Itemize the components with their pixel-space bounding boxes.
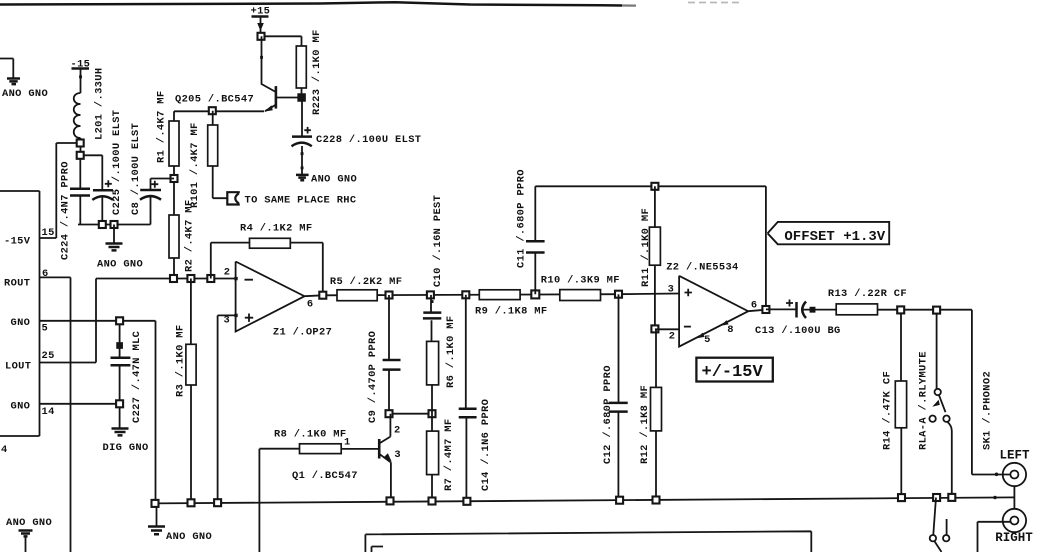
svg-text:C14 /.1N6 PPRO: C14 /.1N6 PPRO	[480, 399, 492, 491]
svg-text:GNO: GNO	[11, 401, 31, 413]
svg-text:Z2 /.NE5534: Z2 /.NE5534	[666, 262, 738, 274]
svg-text:5: 5	[704, 334, 711, 346]
svg-text:15: 15	[42, 227, 55, 239]
svg-text:R101 /.4K7 MF: R101 /.4K7 MF	[189, 122, 201, 208]
svg-text:3: 3	[394, 449, 401, 461]
svg-text:C224 /.4N7 PPRO: C224 /.4N7 PPRO	[60, 161, 72, 260]
svg-text:C12 /.680P PPRO: C12 /.680P PPRO	[602, 365, 614, 464]
svg-text:ANO GNO: ANO GNO	[166, 531, 212, 543]
svg-text:SK1 /.PHONO2: SK1 /.PHONO2	[982, 371, 994, 450]
svg-text:1: 1	[344, 437, 351, 449]
svg-text:2: 2	[394, 424, 401, 436]
svg-text:R6 /.1K0 MF: R6 /.1K0 MF	[445, 316, 457, 388]
svg-text:R4 /.1K2 MF: R4 /.1K2 MF	[240, 223, 312, 235]
svg-text:L201 /.33UH: L201 /.33UH	[94, 68, 106, 140]
svg-text:3: 3	[224, 315, 231, 327]
svg-text:C225 /.100U ELST: C225 /.100U ELST	[111, 110, 123, 215]
svg-text:25: 25	[42, 350, 55, 362]
svg-text:Q1 /.BC547: Q1 /.BC547	[292, 470, 358, 482]
svg-text:C227 /.47N MLC: C227 /.47N MLC	[131, 331, 143, 423]
svg-text:C8 /.100U ELST: C8 /.100U ELST	[130, 123, 142, 215]
svg-text:+15: +15	[251, 6, 271, 18]
svg-text:R1 /.4K7 MF: R1 /.4K7 MF	[156, 91, 168, 163]
svg-text:R8 /.1K0 MF: R8 /.1K0 MF	[274, 429, 346, 441]
svg-text:3: 3	[668, 283, 675, 295]
svg-text:ANO GNO: ANO GNO	[2, 88, 48, 100]
svg-text:4: 4	[1, 444, 8, 456]
svg-text:TO SAME PLACE RHC: TO SAME PLACE RHC	[245, 195, 357, 207]
svg-text:C13 /.100U BG: C13 /.100U BG	[755, 325, 841, 337]
svg-text:R5 /.2K2 MF: R5 /.2K2 MF	[330, 276, 402, 288]
svg-text:R2 /.4K7 MF: R2 /.4K7 MF	[184, 200, 196, 272]
svg-text:R3 /.1K0 MF: R3 /.1K0 MF	[175, 325, 187, 397]
svg-text:8: 8	[727, 324, 734, 336]
svg-text:5: 5	[42, 323, 49, 335]
svg-text:6: 6	[307, 299, 314, 311]
svg-text:6: 6	[42, 268, 49, 280]
svg-text:Q205 /.BC547: Q205 /.BC547	[175, 94, 254, 106]
svg-text:6: 6	[751, 300, 758, 312]
svg-text:R223 /.1K0 MF: R223 /.1K0 MF	[311, 29, 323, 115]
svg-text:C10 /.16N PEST: C10 /.16N PEST	[432, 195, 444, 287]
svg-text:14: 14	[42, 406, 55, 418]
svg-text:-15V: -15V	[4, 236, 31, 248]
svg-text:2: 2	[224, 267, 231, 279]
svg-text:Z1 /.OP27: Z1 /.OP27	[273, 327, 332, 339]
svg-text:ANO GNO: ANO GNO	[97, 259, 143, 271]
svg-text:R12 /.1K8 MF: R12 /.1K8 MF	[639, 385, 651, 464]
svg-text:LOUT: LOUT	[5, 361, 31, 373]
svg-text:OFFSET +1.3V: OFFSET +1.3V	[784, 229, 885, 245]
svg-text:RLA-A /.RLYMUTE: RLA-A /.RLYMUTE	[918, 351, 930, 450]
svg-text:GNO: GNO	[11, 317, 31, 329]
svg-text:C11 /.680P PPRO: C11 /.680P PPRO	[516, 169, 528, 268]
svg-text:C9 /.470P PPRO: C9 /.470P PPRO	[367, 331, 379, 423]
svg-text:ROUT: ROUT	[4, 277, 30, 289]
svg-text:+/-15V: +/-15V	[702, 363, 764, 382]
svg-text:R9 /.1K8 MF: R9 /.1K8 MF	[475, 306, 547, 318]
svg-text:RIGHT: RIGHT	[995, 531, 1033, 545]
svg-text:LEFT: LEFT	[1000, 449, 1031, 463]
svg-text:DIG GNO: DIG GNO	[103, 442, 149, 454]
svg-text:-15: -15	[71, 59, 91, 71]
svg-text:R11 /.1K0 MF: R11 /.1K0 MF	[640, 208, 652, 287]
svg-text:R7 /.4M7 MF: R7 /.4M7 MF	[443, 419, 455, 491]
svg-text:R13 /.22R CF: R13 /.22R CF	[828, 288, 907, 300]
svg-text:C228 /.100U ELST: C228 /.100U ELST	[316, 134, 421, 146]
svg-text:ANO GNO: ANO GNO	[6, 517, 52, 529]
svg-text:R10 /.3K9 MF: R10 /.3K9 MF	[541, 275, 620, 287]
svg-text:2: 2	[669, 330, 676, 342]
svg-text:ANO GNO: ANO GNO	[311, 174, 357, 186]
svg-text:R14 /.47K CF: R14 /.47K CF	[882, 371, 894, 450]
